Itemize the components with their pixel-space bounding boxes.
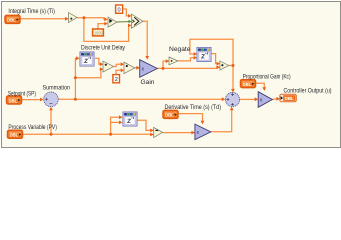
svg-text:Setpoint (SP): Setpoint (SP) [8,90,36,97]
svg-text:2: 2 [115,77,118,83]
svg-text:DBL: DBL [285,96,295,101]
svg-text:Discrete Unit Delay: Discrete Unit Delay [81,44,125,51]
svg-text:Integral Time (s) (Ti): Integral Time (s) (Ti) [8,8,55,15]
svg-text:Summation: Summation [43,84,71,91]
svg-text:Derivative Time (s) (Td): Derivative Time (s) (Td) [165,104,222,111]
svg-text:Process Variable (PV): Process Variable (PV) [8,124,57,131]
svg-text:1000: 1000 [94,31,103,37]
svg-text:Gain: Gain [141,79,155,86]
svg-text:Controller Output (u): Controller Output (u) [284,87,332,94]
svg-text:Proportional Gain (Kc): Proportional Gain (Kc) [243,74,291,81]
svg-text:Negate: Negate [169,46,191,53]
svg-text:0: 0 [118,7,121,13]
